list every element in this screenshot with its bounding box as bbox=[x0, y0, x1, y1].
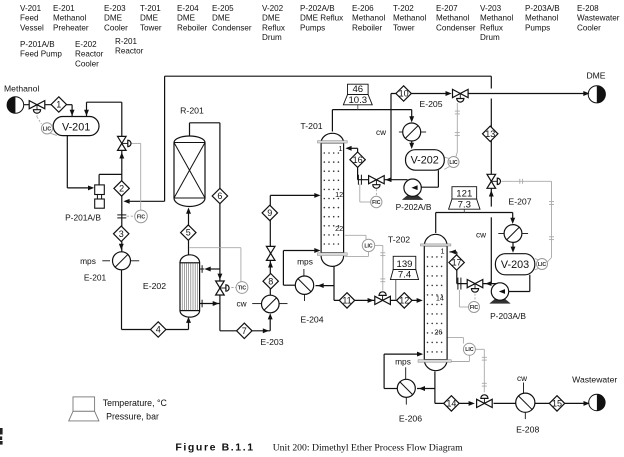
arrow up into stream 8 valve bbox=[268, 261, 273, 267]
wire bottoms valve to E-208 and wastewater bbox=[494, 402, 517, 404]
arrow E-206 return into T-202 bbox=[417, 352, 423, 357]
arrow up into spillback valve bbox=[119, 152, 124, 158]
instrument LIC on V-203 bbox=[537, 259, 548, 270]
valve on stream 8 line bbox=[266, 246, 275, 253]
svg-text:cw: cw bbox=[517, 374, 527, 383]
instrument TIC bbox=[231, 287, 236, 289]
svg-text:LIC: LIC bbox=[538, 262, 547, 268]
stream 14 diamond bbox=[444, 396, 459, 411]
arrow reflux into T-202 top bbox=[450, 249, 456, 254]
flag stream 2 temp-pressure 46 10.3 bbox=[357, 105, 359, 110]
svg-text:P-203A/B: P-203A/B bbox=[525, 4, 560, 13]
wire E-207 to V-203 bbox=[512, 243, 514, 250]
signal LIC-T201 level taps bbox=[345, 234, 366, 236]
svg-text:1: 1 bbox=[56, 100, 61, 110]
instrument LIC-T201 level controller bbox=[362, 239, 374, 251]
svg-text:9: 9 bbox=[267, 208, 272, 218]
svg-text:Cooler: Cooler bbox=[577, 23, 601, 32]
svg-text:26: 26 bbox=[434, 328, 442, 337]
arrow up into recycle valve bbox=[489, 190, 494, 196]
svg-text:E-202: E-202 bbox=[143, 281, 166, 291]
E-202 bottom nozzle bbox=[200, 303, 205, 305]
svg-text:cw: cw bbox=[376, 128, 386, 137]
arrow up into E-202 bbox=[186, 317, 191, 323]
valve on T-201 reflux with orifice bbox=[357, 175, 359, 185]
svg-text:2: 2 bbox=[119, 184, 124, 194]
stream 1 diamond bbox=[51, 97, 66, 112]
svg-text:V-202: V-202 bbox=[411, 155, 439, 167]
arrow up into E-203 bbox=[268, 313, 273, 319]
signal LIC-V202 to DME valve bbox=[456, 152, 458, 158]
exchanger E-207 bbox=[504, 225, 522, 243]
svg-text:Wastewater: Wastewater bbox=[572, 374, 617, 384]
wire V-201 outlet to P-201 bbox=[66, 136, 68, 188]
instrument LIC-V201 bbox=[41, 123, 52, 134]
svg-text:16: 16 bbox=[353, 155, 363, 165]
svg-text:P-202A/B: P-202A/B bbox=[396, 202, 432, 212]
wire E-203 to T-201 feed streams 8 and 9 bbox=[269, 195, 271, 295]
svg-text:DME: DME bbox=[262, 14, 281, 23]
svg-text:Reflux: Reflux bbox=[262, 23, 285, 32]
svg-text:V-201: V-201 bbox=[62, 121, 90, 133]
signal LIC-T202 level taps bbox=[447, 336, 463, 338]
arrow into V-201 from spillback bbox=[84, 110, 89, 116]
svg-text:14: 14 bbox=[436, 293, 444, 302]
svg-text:6: 6 bbox=[217, 191, 222, 201]
arrow T-202 bottoms into E-206 bbox=[419, 386, 425, 391]
svg-text:Pressure, bar: Pressure, bar bbox=[106, 412, 159, 422]
svg-text:E-201: E-201 bbox=[53, 4, 75, 13]
signal FIC-202 sensing from reflux orifice bbox=[359, 184, 361, 202]
svg-text:LIC: LIC bbox=[465, 347, 474, 353]
wire T-202 bottoms to E-206 branch and stream 14 bbox=[434, 372, 436, 404]
valve on T-202 reflux with orifice bbox=[457, 278, 459, 290]
svg-text:P-202A/B: P-202A/B bbox=[300, 4, 335, 13]
arrow down into bypass valve bbox=[217, 274, 222, 280]
column T-201 bbox=[321, 143, 344, 253]
svg-text:17: 17 bbox=[452, 258, 462, 268]
svg-text:E-206: E-206 bbox=[399, 414, 422, 424]
wire E-206 vapor return to T-202 bbox=[384, 388, 397, 390]
svg-text:1: 1 bbox=[338, 144, 342, 153]
stream 9 diamond bbox=[262, 205, 277, 220]
svg-text:7.3: 7.3 bbox=[458, 199, 471, 210]
svg-text:Vessel: Vessel bbox=[20, 23, 44, 32]
instrument LIC on V-202 bbox=[448, 157, 459, 168]
svg-text:Pumps: Pumps bbox=[300, 23, 325, 32]
pump P-202A/B bbox=[402, 195, 422, 200]
svg-text:P-203A/B: P-203A/B bbox=[490, 311, 526, 321]
svg-text:cw: cw bbox=[236, 299, 246, 308]
wire stream 7 to E-203 bbox=[220, 330, 270, 332]
svg-text:FIC: FIC bbox=[372, 200, 381, 206]
svg-text:Tower: Tower bbox=[140, 23, 162, 32]
svg-text:E-203: E-203 bbox=[104, 4, 126, 13]
svg-text:E-204: E-204 bbox=[177, 4, 199, 13]
svg-text:DME Reflux: DME Reflux bbox=[300, 14, 343, 23]
wire methanol recycle from P-203 to feed junction bbox=[457, 283, 498, 285]
svg-text:Reactor: Reactor bbox=[75, 50, 104, 59]
svg-text:12: 12 bbox=[335, 190, 343, 199]
svg-text:3: 3 bbox=[119, 229, 124, 239]
svg-text:mps: mps bbox=[80, 256, 96, 266]
wire E-204 vapor return to T-201 bbox=[283, 284, 295, 286]
wire T-201 bottoms to E-204 and stream 11 bbox=[333, 266, 335, 300]
arrow stream 7 to E-203 bbox=[263, 328, 269, 333]
wire P-201 discharge bbox=[98, 174, 100, 185]
arrow stream 11 into valve bbox=[368, 298, 374, 303]
svg-text:Methanol: Methanol bbox=[525, 14, 558, 23]
svg-text:22: 22 bbox=[335, 224, 343, 233]
svg-text:R-201: R-201 bbox=[115, 37, 138, 46]
svg-text:E-201: E-201 bbox=[84, 273, 107, 283]
arrow stream 14 into valve bbox=[469, 401, 475, 406]
exchanger E-208 bbox=[516, 393, 535, 412]
stream 12 diamond bbox=[397, 293, 412, 308]
arrow DME product bbox=[583, 91, 589, 96]
vessel V-202 reflux drum bbox=[406, 150, 445, 171]
pump P-203A/B bbox=[490, 299, 510, 304]
arrow into V-201 from stream 1 bbox=[70, 110, 75, 116]
svg-text:Methanol: Methanol bbox=[352, 14, 385, 23]
valve spillback FIC controlled bbox=[118, 136, 127, 143]
legend temperature-pressure flag symbol bbox=[73, 397, 95, 411]
svg-text:Cooler: Cooler bbox=[75, 59, 99, 68]
svg-text:Methanol: Methanol bbox=[393, 14, 426, 23]
arrow T-201 bottoms into E-204 bbox=[318, 283, 324, 288]
svg-text:E-206: E-206 bbox=[352, 4, 374, 13]
svg-text:7: 7 bbox=[242, 326, 247, 336]
reactor R-201 bbox=[174, 143, 205, 199]
svg-text:Preheater: Preheater bbox=[53, 23, 89, 32]
valve TIC bypass on stream 6 bbox=[216, 281, 225, 288]
valve on DME product line bbox=[453, 89, 461, 97]
stream 7 diamond bbox=[237, 323, 252, 338]
stream 10 diamond bbox=[396, 86, 411, 101]
signal FIC-201 sensing from orifice bbox=[127, 215, 135, 217]
svg-text:Wastewater: Wastewater bbox=[577, 14, 620, 23]
svg-text:Drum: Drum bbox=[262, 33, 282, 42]
svg-text:R-201: R-201 bbox=[180, 106, 204, 116]
T-201 tray dots bbox=[324, 152, 326, 154]
valve on stream 11 T-202 feed bbox=[375, 296, 383, 304]
signal LIC-T202 to bottoms valve bbox=[475, 348, 484, 350]
svg-text:Unit 200: Dimethyl Ether Proce: Unit 200: Dimethyl Ether Process Flow Di… bbox=[273, 443, 463, 454]
wire V-203 to P-203 suction bbox=[529, 275, 531, 292]
svg-text:15: 15 bbox=[552, 399, 562, 409]
svg-text:DME: DME bbox=[212, 14, 231, 23]
wire E-205 to V-202 bbox=[411, 141, 413, 146]
signal FIC-201 to spillback valve bbox=[140, 143, 142, 210]
stream 17 diamond bbox=[449, 255, 464, 270]
arrow reflux into T-202 valve bbox=[485, 281, 491, 286]
svg-text:E-205: E-205 bbox=[419, 99, 442, 109]
wire R-201 effluent stream 6 bbox=[189, 123, 191, 137]
exchanger E-203 bbox=[262, 295, 280, 313]
column T-202 bbox=[424, 246, 447, 360]
svg-text:5: 5 bbox=[186, 228, 191, 238]
svg-text:LIC: LIC bbox=[43, 126, 52, 132]
stream 4 diamond bbox=[151, 322, 166, 337]
arrow T-202 overhead into E-207 bbox=[510, 218, 515, 224]
svg-text:E-207: E-207 bbox=[508, 197, 531, 207]
wire P-202 discharge and reflux header bbox=[358, 179, 408, 181]
wire methanol feed to valve and stream 1 bbox=[24, 104, 52, 106]
signal LIC-V201 to feed valve bbox=[36, 112, 38, 118]
valve on methanol feed bbox=[29, 101, 37, 109]
svg-text:E-202: E-202 bbox=[75, 40, 97, 49]
svg-text:14: 14 bbox=[446, 399, 456, 409]
svg-text:Methanol: Methanol bbox=[4, 84, 39, 94]
signal FIC-202 to reflux valve bbox=[375, 189, 377, 196]
svg-text:P-201A/B: P-201A/B bbox=[65, 212, 101, 222]
wire V-202 to P-202 suction bbox=[437, 170, 439, 187]
wire E-202 shell outlet bbox=[200, 303, 220, 305]
svg-text:Reboiler: Reboiler bbox=[177, 23, 207, 32]
svg-text:Condenser: Condenser bbox=[212, 23, 252, 32]
svg-text:E-208: E-208 bbox=[577, 4, 599, 13]
E-202 top nozzle bbox=[200, 268, 205, 270]
valve on T-202 bottoms stream 14 bbox=[477, 399, 485, 407]
svg-text:E-208: E-208 bbox=[516, 425, 539, 435]
valve on methanol recycle stream 13 bbox=[487, 174, 496, 181]
svg-text:V-203: V-203 bbox=[501, 259, 529, 271]
svg-text:mps: mps bbox=[395, 356, 411, 366]
svg-text:10.3: 10.3 bbox=[348, 95, 367, 106]
orifice on feed line for FIC-201 bbox=[117, 214, 126, 216]
wire E-202 shell inlet branch bbox=[206, 268, 220, 270]
svg-text:8: 8 bbox=[268, 276, 273, 286]
svg-text:Reactor: Reactor bbox=[115, 47, 144, 56]
svg-text:E-203: E-203 bbox=[260, 337, 283, 347]
svg-text:Feed Pump: Feed Pump bbox=[20, 50, 62, 59]
stream 11 diamond bbox=[339, 293, 354, 308]
svg-text:DME: DME bbox=[586, 71, 605, 81]
wire distillate stream 10 to DME product bbox=[391, 93, 448, 95]
wire T-202 reflux via stream 17 bbox=[456, 252, 458, 284]
svg-text:Reflux: Reflux bbox=[480, 23, 503, 32]
svg-text:12: 12 bbox=[399, 296, 409, 306]
wire spillback return to V-201 bbox=[121, 137, 123, 151]
wire main feed line vertical through streams 2 and 3 bbox=[121, 150, 123, 252]
svg-text:FIC: FIC bbox=[137, 214, 146, 220]
wire E-201 outlet stream 4 to E-202 bbox=[121, 270, 123, 330]
svg-text:Methanol: Methanol bbox=[480, 14, 513, 23]
svg-text:Methanol: Methanol bbox=[53, 14, 86, 23]
stream 6 diamond bbox=[212, 188, 227, 203]
arrow into E-205 bbox=[409, 116, 414, 122]
svg-text:Figure B.1.1: Figure B.1.1 bbox=[175, 442, 254, 454]
stream 13 diamond bbox=[483, 126, 498, 141]
svg-text:1: 1 bbox=[440, 247, 444, 256]
svg-text:Drum: Drum bbox=[480, 33, 500, 42]
arrow into R-201 bbox=[186, 208, 191, 214]
svg-text:T-201: T-201 bbox=[300, 121, 322, 131]
svg-text:cw: cw bbox=[476, 230, 486, 239]
svg-text:E-204: E-204 bbox=[300, 315, 323, 325]
stream 15 diamond bbox=[549, 396, 564, 411]
exchanger E-201 bbox=[113, 252, 131, 270]
svg-text:Condenser: Condenser bbox=[436, 23, 476, 32]
svg-text:DME: DME bbox=[140, 14, 159, 23]
exchanger E-202 shell and tube bbox=[180, 255, 200, 263]
svg-text:Reboiler: Reboiler bbox=[352, 23, 382, 32]
signal LIC-T201 to stream 11 valve bbox=[375, 244, 383, 246]
svg-text:10: 10 bbox=[399, 89, 409, 99]
instrument FIC-203 bbox=[469, 302, 480, 313]
arrow E-202 shell outlet joins bbox=[213, 301, 219, 306]
signal FIC-203 to reflux valve bbox=[474, 294, 476, 302]
stream 3 diamond bbox=[114, 226, 129, 241]
instrument FIC-202 bbox=[371, 196, 382, 207]
svg-text:P-201A/B: P-201A/B bbox=[20, 40, 55, 49]
exchanger E-204 bbox=[295, 276, 313, 294]
stream 2 diamond bbox=[114, 181, 129, 196]
exchanger E-206 bbox=[397, 379, 415, 397]
signal TIC sensing on stream 5 bbox=[240, 248, 242, 282]
arrow E-204 return into T-201 bbox=[314, 248, 320, 253]
arrow into T-201 reflux valve bbox=[385, 177, 391, 182]
svg-text:121: 121 bbox=[456, 189, 472, 200]
svg-text:V-202: V-202 bbox=[262, 4, 284, 13]
signal LIC-V202 level taps bbox=[444, 157, 449, 158]
instrument FIC-201 bbox=[135, 210, 148, 223]
page edge marks bbox=[0, 428, 3, 435]
pump P-201A/B bbox=[95, 185, 105, 195]
svg-text:E-207: E-207 bbox=[436, 4, 458, 13]
svg-text:T-201: T-201 bbox=[140, 4, 161, 13]
svg-text:mps: mps bbox=[297, 256, 313, 266]
arrow wastewater product bbox=[584, 401, 590, 406]
flag stream 12 temp-pressure 139 7.4 bbox=[395, 280, 397, 301]
T-202 tray dots bbox=[427, 256, 429, 258]
svg-text:Tower: Tower bbox=[393, 23, 415, 32]
stream 5 diamond bbox=[181, 225, 196, 240]
wire T-201 overhead to E-205 bbox=[331, 110, 333, 132]
svg-text:E-205: E-205 bbox=[212, 4, 234, 13]
signal LIC-V203 to recycle valve bbox=[547, 258, 551, 263]
stream 16 diamond bbox=[350, 152, 365, 167]
svg-text:4: 4 bbox=[156, 325, 161, 335]
arrow recycle joins feed line bbox=[123, 199, 129, 204]
wire T-201 reflux via stream 16 bbox=[357, 148, 359, 179]
svg-text:T-202: T-202 bbox=[393, 4, 414, 13]
svg-text:LIC: LIC bbox=[364, 243, 373, 249]
arrow into P-201 bbox=[88, 185, 94, 190]
svg-text:LIC: LIC bbox=[449, 160, 458, 166]
svg-text:Pumps: Pumps bbox=[525, 23, 550, 32]
svg-text:11: 11 bbox=[342, 296, 351, 306]
svg-text:V-203: V-203 bbox=[480, 4, 502, 13]
svg-text:Cooler: Cooler bbox=[104, 23, 128, 32]
stream 8 diamond bbox=[263, 274, 278, 289]
wire stream 5 E-202 to R-201 bbox=[188, 210, 190, 255]
signal FIC-203 sensing from T-202 reflux orifice bbox=[458, 290, 460, 307]
svg-text:TIC: TIC bbox=[238, 285, 247, 291]
vessel V-201 bbox=[53, 117, 99, 136]
arrow reflux into T-201 top bbox=[345, 146, 351, 151]
vessel V-203 reflux drum bbox=[495, 254, 534, 275]
wire T-202 overhead to E-207 bbox=[435, 213, 437, 234]
arrow down to E-201 bbox=[119, 244, 124, 250]
arrow T-202 feed bbox=[417, 298, 423, 303]
svg-text:DME: DME bbox=[177, 14, 196, 23]
svg-text:Feed: Feed bbox=[20, 14, 38, 23]
svg-text:46: 46 bbox=[352, 84, 363, 95]
svg-text:7.4: 7.4 bbox=[398, 270, 412, 281]
arrow T-201 feed bbox=[314, 193, 320, 198]
svg-text:T-202: T-202 bbox=[388, 235, 410, 245]
exchanger E-205 bbox=[403, 123, 421, 141]
svg-text:FIC: FIC bbox=[470, 305, 479, 311]
svg-text:139: 139 bbox=[396, 259, 412, 270]
signal LIC-V203 level taps bbox=[535, 259, 539, 260]
svg-text:Temperature, °C: Temperature, °C bbox=[103, 398, 168, 408]
arrow into V-202 bbox=[409, 143, 414, 149]
arrow stream 10 to DME valve bbox=[446, 91, 452, 96]
arrow into V-203 bbox=[511, 247, 516, 253]
instrument LIC-T202 level controller bbox=[463, 343, 475, 355]
signal LIC-V201 level taps bbox=[52, 122, 56, 126]
flag stream overhead temp-pressure 121 7.3 bbox=[463, 209, 465, 212]
svg-text:13: 13 bbox=[485, 129, 495, 139]
svg-text:V-201: V-201 bbox=[20, 4, 42, 13]
signal TIC to bypass valve bbox=[231, 287, 236, 289]
arrow into E-202 shell nozzle bbox=[205, 267, 211, 272]
svg-text:Methanol: Methanol bbox=[436, 14, 469, 23]
svg-text:DME: DME bbox=[104, 14, 123, 23]
